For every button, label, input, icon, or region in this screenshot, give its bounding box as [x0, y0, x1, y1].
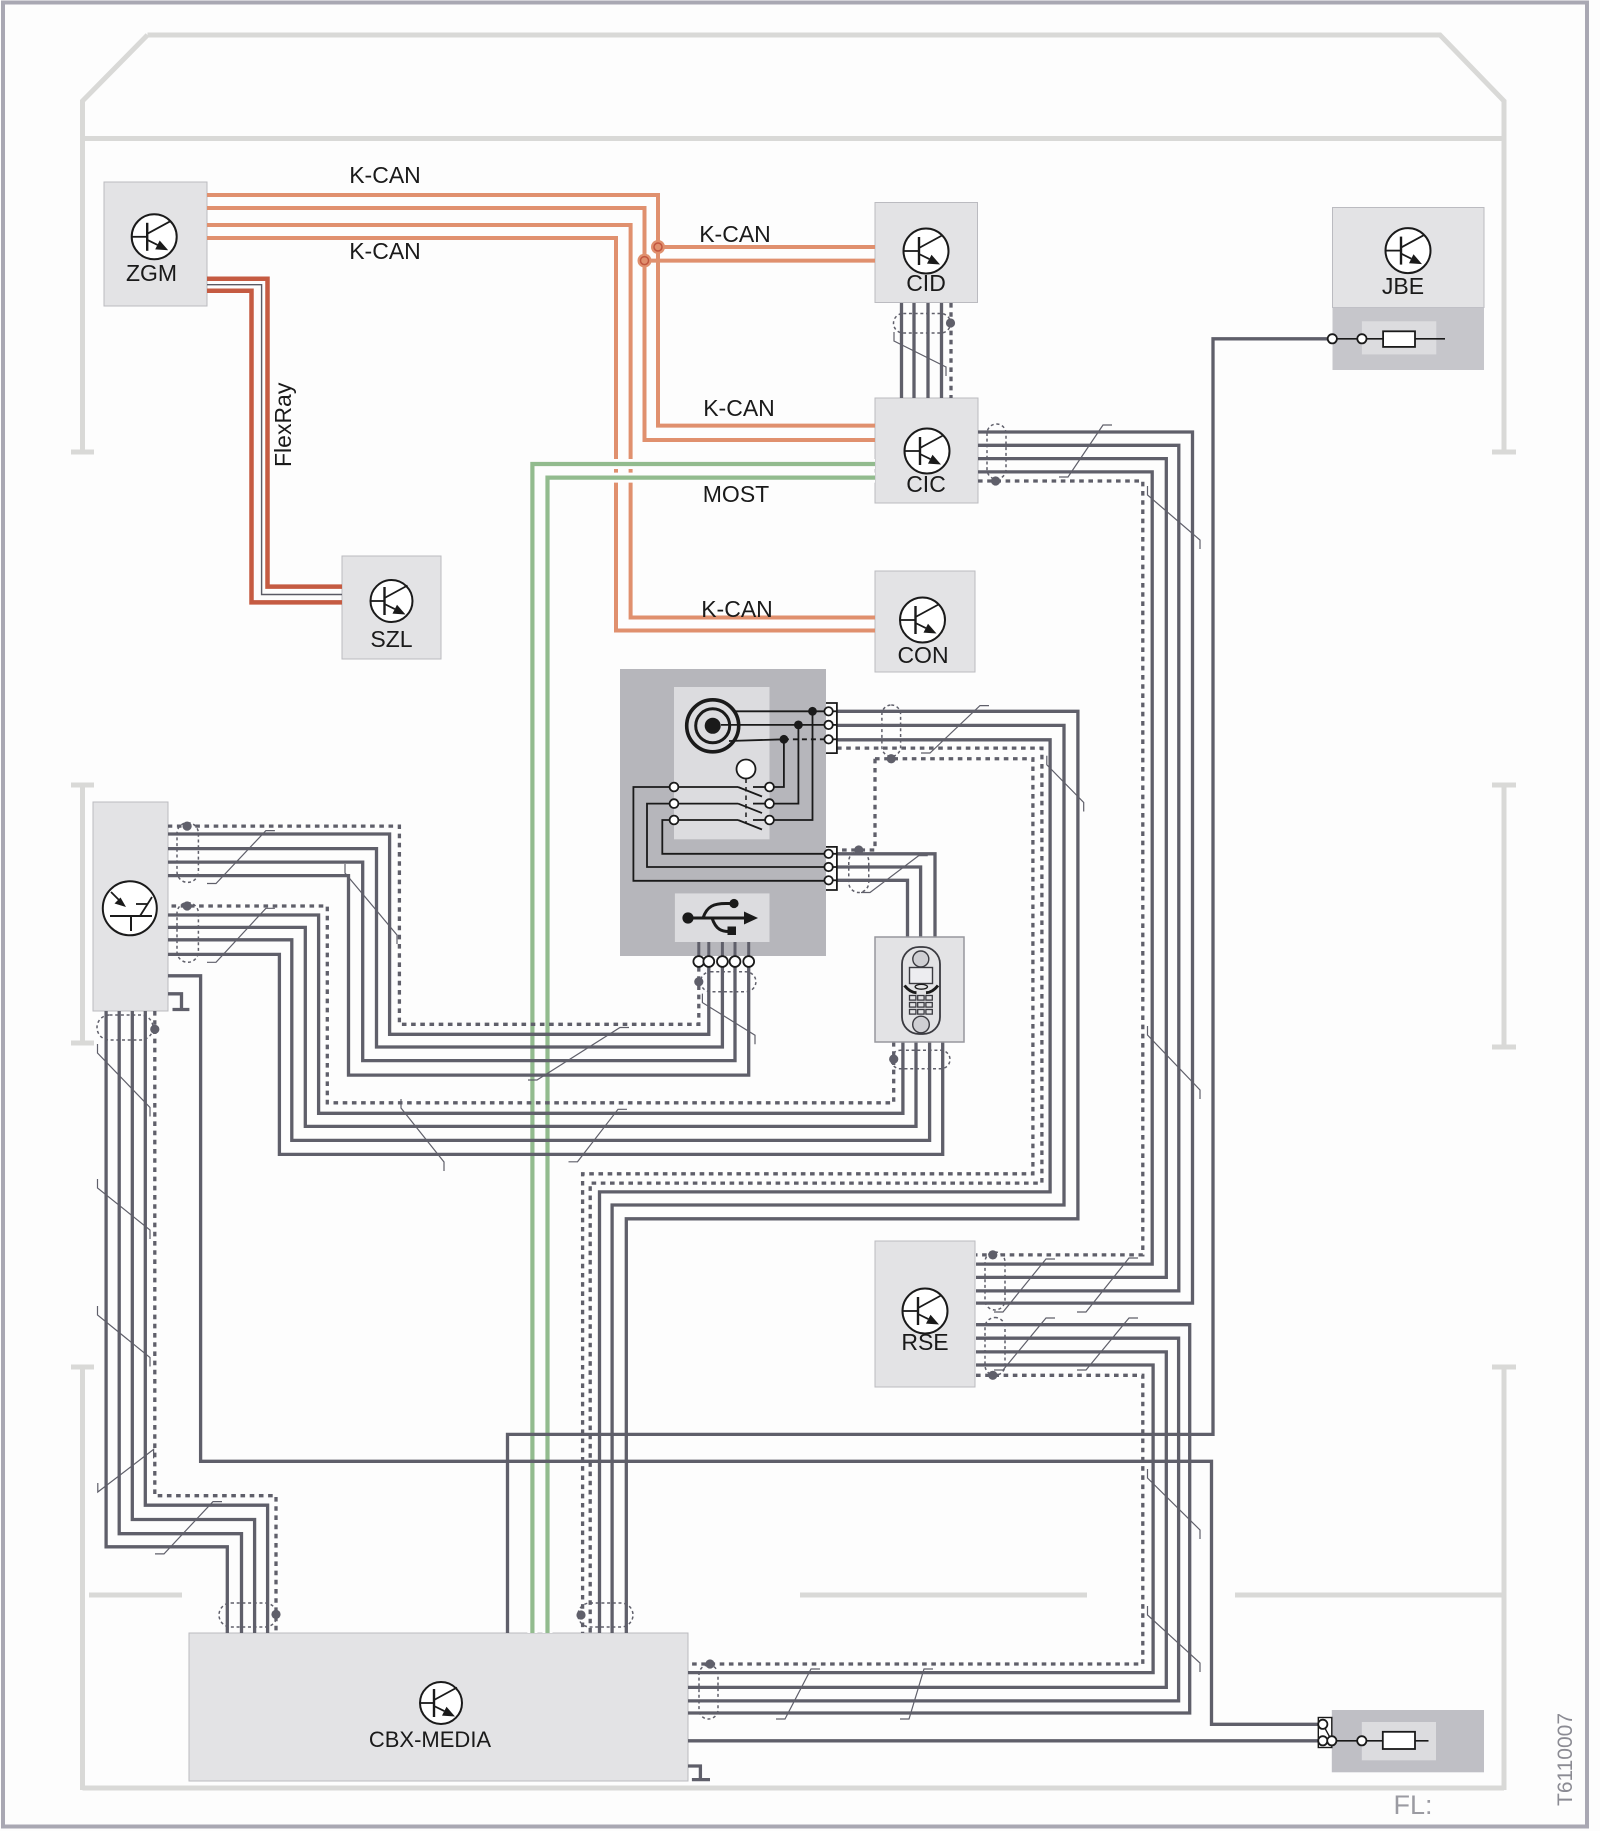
svg-text:RSE: RSE	[901, 1329, 948, 1355]
svg-text:K-CAN: K-CAN	[701, 596, 773, 622]
svg-text:JBE: JBE	[1382, 273, 1424, 299]
svg-text:CIC: CIC	[906, 471, 946, 497]
svg-text:CID: CID	[906, 270, 946, 296]
svg-text:CBX-MEDIA: CBX-MEDIA	[369, 1727, 492, 1752]
svg-text:K-CAN: K-CAN	[703, 395, 775, 421]
svg-text:K-CAN: K-CAN	[349, 162, 421, 188]
svg-text:K-CAN: K-CAN	[699, 221, 771, 247]
svg-text:FL:: FL:	[1393, 1790, 1432, 1820]
svg-text:SZL: SZL	[370, 626, 412, 652]
svg-text:FlexRay: FlexRay	[270, 382, 296, 467]
svg-text:MOST: MOST	[703, 481, 769, 507]
svg-text:CON: CON	[897, 642, 948, 668]
svg-text:ZGM: ZGM	[126, 260, 177, 286]
svg-text:T6110007: T6110007	[1554, 1713, 1577, 1806]
svg-text:K-CAN: K-CAN	[349, 238, 421, 264]
